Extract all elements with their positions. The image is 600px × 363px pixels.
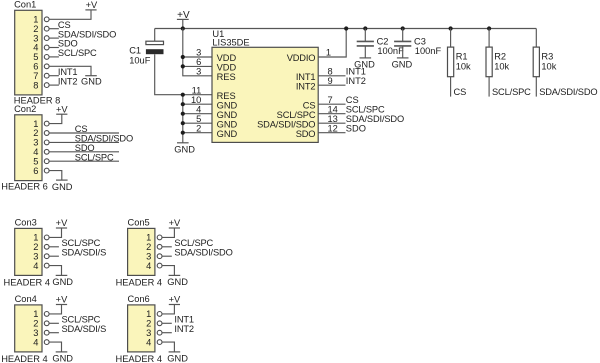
wire rail to R1	[450, 29, 452, 48]
ground (C2)	[354, 58, 375, 70]
wire Con1 pin4 stub	[49, 47, 59, 49]
svg-text:+V: +V	[56, 295, 68, 305]
wire Con1 pin3 stub	[49, 37, 59, 39]
svg-text:GND: GND	[217, 100, 238, 110]
power +V (Con5)	[169, 218, 181, 228]
wire Con4 pin2 stub	[49, 322, 59, 324]
connector Con2	[1, 104, 49, 191]
svg-text:+V: +V	[177, 10, 190, 21]
svg-text:10k: 10k	[456, 61, 471, 71]
svg-text:6: 6	[33, 166, 38, 176]
svg-text:GND: GND	[52, 277, 73, 287]
svg-text:SCL/SPC: SCL/SPC	[492, 87, 531, 97]
wire U1 left pin row 1	[183, 94, 212, 96]
wire Con5 pin4 to ground	[162, 266, 174, 276]
wire Con4 pin1 to +V	[49, 305, 61, 314]
svg-text:RES: RES	[217, 72, 236, 82]
svg-text:VDDIO: VDDIO	[287, 53, 316, 63]
svg-text:+V: +V	[169, 218, 181, 228]
svg-text:Con5: Con5	[128, 218, 150, 228]
svg-text:Con6: Con6	[128, 294, 150, 304]
svg-text:RES: RES	[217, 91, 236, 101]
wire SDA/SDI/SDO stub	[318, 122, 345, 124]
junction VDDIO rail	[344, 26, 348, 30]
svg-text:GND: GND	[217, 119, 238, 129]
wire Con6 pin4 to ground	[162, 342, 174, 352]
svg-text:Con3: Con3	[15, 218, 37, 228]
wire VDD pin 6	[183, 65, 212, 67]
svg-text:GND: GND	[354, 60, 375, 70]
svg-text:100nF: 100nF	[377, 46, 404, 56]
junction C2 rail	[363, 26, 367, 30]
svg-text:R2: R2	[494, 51, 506, 61]
junction ground bus	[181, 112, 185, 116]
wire +V bus	[183, 29, 212, 76]
svg-text:GND: GND	[217, 110, 238, 120]
power +V (main rail)	[177, 10, 190, 21]
svg-text:100nF: 100nF	[415, 46, 442, 56]
wire Con2 pin4 net SDO	[49, 151, 119, 153]
wire R1 pulldown	[450, 77, 452, 97]
wire Con2 pin2 net CS	[49, 132, 119, 134]
svg-text:5: 5	[196, 114, 201, 124]
svg-text:C2: C2	[377, 36, 389, 46]
wire Con1 pin1 to +V	[49, 10, 91, 19]
svg-text:SDA/SDI/S: SDA/SDI/S	[62, 247, 107, 257]
wire U1 left pin row 3	[183, 113, 212, 115]
wire +V stem	[182, 19, 184, 28]
svg-text:+V: +V	[56, 104, 68, 114]
svg-text:Con4: Con4	[15, 294, 37, 304]
wire U1 left pin row 4	[183, 122, 212, 124]
svg-text:R3: R3	[541, 51, 553, 61]
svg-text:Con2: Con2	[14, 104, 36, 114]
svg-text:GND: GND	[167, 354, 188, 363]
svg-text:13: 13	[328, 114, 338, 124]
svg-text:3: 3	[196, 67, 201, 77]
wire Con1 pin2 stub	[49, 28, 59, 30]
connector Con4	[1, 294, 49, 363]
svg-text:Con1: Con1	[14, 0, 36, 10]
svg-text:2: 2	[196, 123, 201, 133]
capacitor C2	[357, 41, 374, 46]
svg-text:INT2: INT2	[296, 81, 316, 91]
svg-text:LIS35DE: LIS35DE	[212, 37, 249, 47]
wire Con4 pin4 to ground	[49, 342, 61, 352]
svg-text:10k: 10k	[541, 61, 556, 71]
wire Con2 pin5 net SCL/SPC	[49, 160, 119, 162]
wire Con1 pin7 stub	[49, 75, 59, 77]
wire rail to C2	[364, 29, 366, 42]
svg-text:CS: CS	[454, 87, 467, 97]
svg-text:SDO: SDO	[346, 124, 366, 134]
ground (Con3)	[52, 275, 73, 287]
svg-text:SCL/SPC: SCL/SPC	[58, 48, 97, 58]
svg-text:R1: R1	[456, 51, 468, 61]
wire rail to R2	[488, 29, 490, 48]
power +V (Con3)	[56, 218, 68, 228]
wire Con4 pin3 stub	[49, 332, 59, 334]
wire ground bus	[182, 95, 184, 143]
resistor R3	[533, 47, 539, 77]
wire Con3 pin3 stub	[49, 255, 59, 257]
svg-text:HEADER 4: HEADER 4	[116, 278, 163, 288]
svg-text:INT2: INT2	[58, 76, 78, 86]
wire Con6 pin3 stub	[162, 332, 172, 334]
junction R1 rail	[449, 26, 453, 30]
svg-text:GND: GND	[167, 277, 188, 287]
svg-text:SDA/SDI/SDO: SDA/SDI/SDO	[174, 247, 232, 257]
wire C1 to ground bus	[155, 54, 183, 94]
svg-text:14: 14	[328, 104, 338, 114]
svg-text:SCL/SPC: SCL/SPC	[346, 105, 385, 115]
wire rail to R3	[535, 29, 537, 48]
wire R2 pulldown	[488, 77, 490, 97]
junction VDD pin 3	[181, 55, 185, 59]
svg-text:CS: CS	[346, 95, 359, 105]
svg-text:1: 1	[326, 48, 331, 58]
svg-text:+V: +V	[86, 0, 98, 10]
svg-text:SDA/SDI/S: SDA/SDI/S	[62, 324, 107, 334]
svg-text:9: 9	[328, 76, 333, 86]
wire Con2 pin3 net SDA/SDI/SDO	[49, 141, 119, 143]
wire Con5 pin2 stub	[162, 246, 172, 248]
capacitor C3	[394, 41, 411, 46]
svg-text:GND: GND	[52, 354, 73, 363]
svg-text:SCL/SPC: SCL/SPC	[277, 110, 316, 120]
svg-text:10k: 10k	[494, 61, 509, 71]
svg-text:HEADER 4: HEADER 4	[4, 278, 51, 288]
svg-text:4: 4	[196, 104, 201, 114]
ground (U1 bus)	[174, 143, 195, 155]
ground (Con1)	[81, 76, 102, 87]
wire Con1 pin6 to ground	[49, 66, 91, 75]
svg-text:GND: GND	[392, 60, 413, 70]
svg-text:GND: GND	[52, 182, 73, 192]
wire VDD pin 3	[183, 56, 212, 58]
svg-text:CS: CS	[303, 100, 316, 110]
svg-text:+V: +V	[169, 295, 181, 305]
svg-text:10uF: 10uF	[129, 56, 151, 66]
svg-text:12: 12	[328, 123, 338, 133]
svg-text:4: 4	[146, 337, 151, 347]
wire +V rail	[155, 28, 537, 30]
wire R3 pulldown	[535, 77, 537, 97]
svg-text:4: 4	[33, 337, 38, 347]
power +V (Con4)	[56, 295, 68, 305]
svg-text:GND: GND	[217, 129, 238, 139]
svg-text:+V: +V	[56, 218, 68, 228]
ground (Con5)	[167, 275, 188, 287]
svg-text:SCL/SPC: SCL/SPC	[75, 152, 114, 162]
svg-text:HEADER 4: HEADER 4	[1, 354, 48, 363]
svg-text:INT2: INT2	[174, 324, 194, 334]
wire rail to C3	[402, 29, 404, 42]
svg-text:7: 7	[328, 95, 333, 105]
svg-text:HEADER 4: HEADER 4	[116, 354, 163, 363]
connector Con1	[14, 0, 61, 106]
power +V (Con6)	[169, 295, 181, 305]
op-amp U1 body	[212, 47, 318, 142]
junction ground bus	[181, 131, 185, 135]
junction ground bus	[181, 121, 185, 125]
wire Con1 pin5 stub	[49, 56, 59, 58]
wire SDO stub	[318, 132, 345, 134]
power +V (Con2)	[56, 104, 68, 114]
ground (C3)	[392, 58, 413, 70]
wire C3 to ground	[402, 46, 404, 58]
wire Con2 pin1 to +V	[49, 114, 62, 123]
wire VDDIO to rail	[318, 29, 346, 58]
connector Con6	[116, 294, 163, 363]
wire Con6 pin1 to +V	[162, 305, 174, 314]
wire rail to C1	[154, 29, 156, 42]
wire CS stub	[318, 103, 345, 105]
junction C3 rail	[401, 26, 405, 30]
wire Con3 pin1 to +V	[49, 228, 61, 237]
svg-text:8: 8	[33, 80, 38, 90]
power +V (Con1)	[85, 0, 98, 10]
wire Con3 pin4 to ground	[49, 266, 61, 276]
ground (Con6)	[167, 352, 188, 363]
capacitor C1	[146, 41, 164, 54]
junction ground bus	[181, 93, 185, 97]
svg-text:C3: C3	[414, 36, 426, 46]
junction +V rail	[181, 26, 185, 30]
connector Con3	[4, 218, 51, 288]
wire Con5 pin3 stub	[162, 255, 172, 257]
svg-text:SDA/SDI/SDO: SDA/SDI/SDO	[346, 114, 404, 124]
ground (Con2)	[52, 180, 73, 192]
resistor R1	[448, 47, 454, 77]
resistor R2	[486, 47, 492, 77]
svg-text:HEADER 6: HEADER 6	[1, 181, 48, 191]
svg-text:GND: GND	[81, 77, 102, 87]
svg-text:4: 4	[146, 261, 151, 271]
svg-text:INT2: INT2	[346, 76, 366, 86]
wire INT2 stub	[318, 84, 345, 86]
junction VDD pin 6	[181, 64, 185, 68]
wire Con5 pin1 to +V	[162, 228, 174, 237]
wire U1 left pin row 5	[183, 132, 212, 134]
wire C2 to ground	[364, 46, 366, 58]
wire SCL/SPC stub	[318, 113, 345, 115]
wire Con1 pin8 stub	[49, 84, 59, 86]
svg-text:SDA/SDI/SDO: SDA/SDI/SDO	[257, 119, 315, 129]
wire U1 left pin row 2	[183, 103, 212, 105]
svg-text:4: 4	[33, 261, 38, 271]
junction R2 rail	[487, 26, 491, 30]
junction ground bus	[181, 102, 185, 106]
ground (Con4)	[52, 352, 73, 363]
wire Con6 pin2 stub	[162, 322, 172, 324]
svg-text:SDA/SDI/SDO: SDA/SDI/SDO	[539, 87, 597, 97]
svg-text:C1: C1	[129, 46, 141, 56]
svg-text:11: 11	[192, 85, 202, 95]
wire Con2 pin6 to ground	[49, 171, 62, 181]
wire Con3 pin2 stub	[49, 246, 59, 248]
svg-text:GND: GND	[174, 145, 195, 155]
svg-text:10: 10	[191, 95, 201, 105]
svg-text:SDO: SDO	[296, 129, 316, 139]
connector Con5	[116, 218, 163, 288]
wire INT1 stub	[318, 75, 345, 77]
